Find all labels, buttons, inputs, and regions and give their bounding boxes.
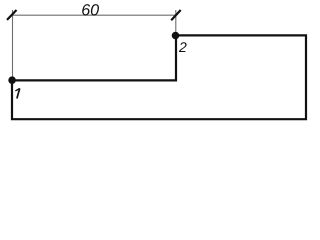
node 1 (filled point marker) xyxy=(8,76,16,84)
tick mark at left end of dimension line xyxy=(7,10,17,20)
wire: extension line at point 1 (x=12.5) xyxy=(12,10,14,79)
node label 1 xyxy=(15,88,19,98)
value label 60 xyxy=(82,4,99,15)
node label 2 xyxy=(179,42,187,52)
wire: dimension line 60 xyxy=(12,14,176,16)
wire: extension line at point 2 (x=175.8) xyxy=(175,10,177,35)
tick mark at right end of dimension line xyxy=(171,10,181,20)
wire: profile outline (stepped contour) xyxy=(12,35,306,119)
node 2 (filled point marker) xyxy=(172,32,180,40)
